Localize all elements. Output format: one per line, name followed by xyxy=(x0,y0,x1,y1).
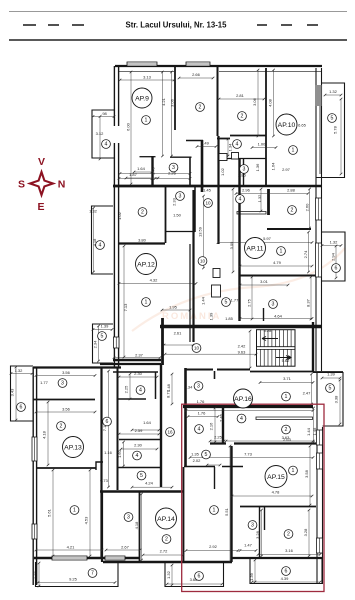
dimension line xyxy=(108,371,110,487)
dimension line xyxy=(186,410,313,412)
wall: AP11 right balcony xyxy=(322,232,345,281)
room number 1 xyxy=(277,247,286,256)
wall: AP14-AP15 divider xyxy=(230,446,232,562)
svg-text:3: 3 xyxy=(197,384,200,390)
window top-left xyxy=(127,62,157,66)
wall: wall right of stairs bottom xyxy=(313,371,343,373)
compass rose star xyxy=(30,172,53,195)
room number 1 xyxy=(289,466,298,475)
svg-text:2.81: 2.81 xyxy=(236,93,245,98)
title bar rule top xyxy=(9,11,347,13)
svg-text:4.21: 4.21 xyxy=(67,545,76,550)
svg-text:2.25: 2.25 xyxy=(124,385,129,394)
wall: AP13 interior wall 2 xyxy=(36,467,96,469)
bath fixture band b xyxy=(232,153,239,160)
wall: AP11 left wall xyxy=(238,158,240,321)
room number 2 xyxy=(282,425,291,434)
svg-text:1.36: 1.36 xyxy=(255,163,260,172)
dimension line xyxy=(186,550,238,552)
room number 3 xyxy=(248,521,257,530)
svg-text:2.63: 2.63 xyxy=(283,437,292,442)
dimension line xyxy=(260,189,262,211)
wall: AP13 interior wall 1 xyxy=(33,399,95,401)
svg-text:2.34: 2.34 xyxy=(185,385,194,390)
svg-text:2.25: 2.25 xyxy=(214,435,223,440)
dimension line xyxy=(179,77,213,79)
svg-text:2.47: 2.47 xyxy=(303,391,312,396)
svg-text:6: 6 xyxy=(285,569,288,575)
svg-text:0.73: 0.73 xyxy=(100,478,109,483)
window bottom a xyxy=(52,556,87,560)
wall: AP12 kitchen divider xyxy=(165,187,167,243)
svg-text:1.45: 1.45 xyxy=(203,188,212,193)
svg-text:3.06: 3.06 xyxy=(252,97,257,106)
svg-text:2: 2 xyxy=(60,424,63,430)
dimension line xyxy=(11,373,32,375)
svg-text:3.06: 3.06 xyxy=(170,98,175,107)
wall: AP9 balcony 4 outline xyxy=(92,110,114,158)
svg-text:6: 6 xyxy=(335,266,338,272)
svg-text:4.78: 4.78 xyxy=(272,490,281,495)
wall: AP12 small balcony xyxy=(93,324,114,363)
svg-text:4: 4 xyxy=(198,427,201,433)
svg-text:.98: .98 xyxy=(101,111,107,116)
svg-text:5.28: 5.28 xyxy=(264,328,273,333)
room number 16 xyxy=(166,428,175,437)
wall: AP15 bath wall h xyxy=(184,466,215,468)
watermark swoosh xyxy=(132,248,345,331)
svg-text:AP.9: AP.9 xyxy=(135,95,149,102)
window right AP15 c xyxy=(317,538,323,553)
svg-text:AP.16: AP.16 xyxy=(234,396,252,403)
svg-text:4: 4 xyxy=(136,453,139,459)
wall: AP15 left wall upper xyxy=(184,368,187,467)
dimension line xyxy=(335,246,337,278)
dimension line xyxy=(99,117,101,160)
room number 4 xyxy=(133,451,142,460)
wall: AP15 left wall lower xyxy=(183,467,185,562)
svg-text:2.67: 2.67 xyxy=(121,545,130,550)
svg-text:3.58: 3.58 xyxy=(304,469,309,478)
dimension line xyxy=(325,94,341,96)
wall: AP12 right wall line xyxy=(189,244,191,342)
room number 5 xyxy=(98,332,107,341)
dimension line xyxy=(240,550,256,552)
apartment label AP.9 xyxy=(132,88,152,108)
svg-text:2.72: 2.72 xyxy=(160,549,169,554)
room number 5 xyxy=(222,298,231,307)
dimension line xyxy=(197,146,216,148)
wall: AP15 top wall xyxy=(183,405,313,408)
room number 5 xyxy=(326,384,335,393)
svg-text:16: 16 xyxy=(167,430,173,435)
svg-text:3.16: 3.16 xyxy=(285,548,294,553)
dimension line xyxy=(203,196,205,268)
dimension line xyxy=(126,177,158,179)
svg-text:3.56: 3.56 xyxy=(62,370,71,375)
svg-text:7.13: 7.13 xyxy=(123,303,128,312)
dimension line xyxy=(167,583,222,585)
svg-text:N: N xyxy=(58,179,66,191)
wall: stairs bottom wall xyxy=(250,371,313,373)
room number 2 xyxy=(57,422,66,431)
dimension line xyxy=(15,367,17,420)
wall: AP12 left terrace xyxy=(92,206,114,274)
room number 4 xyxy=(236,195,245,204)
red highlight box around AP.15 xyxy=(182,404,324,591)
window right AP11 a xyxy=(316,198,322,220)
room number 4 xyxy=(195,425,204,434)
dimension line xyxy=(123,246,125,357)
wall: bottom wall right xyxy=(232,557,322,559)
svg-text:2.33: 2.33 xyxy=(172,197,177,206)
wall: bottom wall mid xyxy=(103,561,232,563)
svg-text:1.39: 1.39 xyxy=(101,324,110,329)
window AP12 left xyxy=(114,337,120,348)
room number 3 xyxy=(240,165,249,174)
svg-text:4.21: 4.21 xyxy=(161,97,166,106)
svg-text:5: 5 xyxy=(205,452,208,458)
dimension line xyxy=(188,416,218,418)
dimension line xyxy=(134,171,152,173)
dimension line xyxy=(164,344,193,346)
svg-text:2: 2 xyxy=(165,537,168,543)
svg-text:3.01: 3.01 xyxy=(260,279,269,284)
svg-text:1.77: 1.77 xyxy=(40,380,49,385)
svg-text:13.59: 13.59 xyxy=(198,226,203,237)
wall: AP9 bath wall vertical 2 xyxy=(189,157,191,186)
room number 1 xyxy=(282,392,291,401)
dimension line xyxy=(121,448,157,450)
wall: AP11 wc shelf xyxy=(237,212,266,215)
dimension line xyxy=(36,375,95,377)
svg-text:4: 4 xyxy=(240,416,243,422)
wall: AP15 interior wall h xyxy=(240,506,316,508)
wc fixture corridor b xyxy=(212,285,221,297)
svg-text:4.64: 4.64 xyxy=(274,314,283,319)
dimension line xyxy=(249,331,251,368)
dimension line xyxy=(251,277,253,319)
wall: AP15 right wall inner xyxy=(316,372,318,584)
dimension line xyxy=(120,79,174,81)
dimension line xyxy=(309,446,311,505)
dimension line xyxy=(123,442,125,466)
svg-text:1.39: 1.39 xyxy=(327,372,336,377)
dimension line xyxy=(129,374,131,399)
room number 3 xyxy=(169,163,178,172)
dimension line xyxy=(132,486,172,488)
svg-text:10: 10 xyxy=(200,259,206,264)
svg-text:1.32: 1.32 xyxy=(329,89,338,94)
svg-text:9.63: 9.63 xyxy=(238,350,247,355)
room number 6 xyxy=(282,567,291,576)
svg-text:1: 1 xyxy=(213,508,216,514)
svg-text:6: 6 xyxy=(198,574,201,580)
wall: AP14 balcony outline xyxy=(165,563,224,587)
wall: terrace 7 outline xyxy=(36,562,119,587)
svg-text:2.60: 2.60 xyxy=(305,203,310,212)
room number 10 xyxy=(204,199,213,208)
svg-text:5.78: 5.78 xyxy=(333,125,338,134)
svg-text:3.80: 3.80 xyxy=(138,238,147,243)
room number 5 xyxy=(202,450,211,459)
wall: wall y186 left section xyxy=(113,185,204,188)
wall: right exterior wall outer xyxy=(321,68,323,371)
masonry fill: masonry right top xyxy=(315,85,322,106)
wall: corridor left wall xyxy=(201,140,204,192)
room number 2 xyxy=(162,535,171,544)
apartment label AP.16 xyxy=(234,389,253,408)
window top-mid xyxy=(186,62,210,66)
dimension line xyxy=(93,329,112,331)
svg-text:10: 10 xyxy=(205,201,211,206)
svg-text:1.32: 1.32 xyxy=(166,570,171,579)
room number 4 xyxy=(136,386,145,395)
wall: AP10 interior wall xyxy=(265,68,267,187)
title bar rule bottom xyxy=(9,39,347,41)
dimension line xyxy=(308,232,310,272)
staircase outline xyxy=(257,330,296,367)
svg-text:2.16: 2.16 xyxy=(209,422,214,431)
svg-text:1.16: 1.16 xyxy=(104,450,113,455)
wall: AP16 room4 right wall xyxy=(155,372,157,399)
room number 1 xyxy=(142,116,151,125)
wall: AP10 band room3 left wall xyxy=(243,159,245,186)
svg-text:1.02: 1.02 xyxy=(117,211,122,220)
svg-text:2: 2 xyxy=(199,105,202,111)
dimension line xyxy=(190,457,313,459)
dimension line xyxy=(240,284,288,286)
dimension line xyxy=(38,582,115,584)
svg-text:2: 2 xyxy=(291,208,294,214)
svg-text:1.32: 1.32 xyxy=(89,209,98,214)
room number 4 xyxy=(233,140,242,149)
wall: AP15 interior wall v a xyxy=(259,506,261,558)
window right AP11 b xyxy=(316,243,322,277)
svg-text:AP.10: AP.10 xyxy=(278,122,296,129)
room number 2 xyxy=(284,530,293,539)
dimension line xyxy=(141,494,143,560)
room number 2 xyxy=(196,103,205,112)
wall: AP14 top wall xyxy=(100,490,183,493)
wall: AP15 balcony col xyxy=(313,373,343,427)
dimension line xyxy=(119,376,157,378)
wall: corridor right wall xyxy=(217,136,219,244)
dimension line xyxy=(171,565,173,585)
wall: AP16 room mid wall xyxy=(119,439,161,441)
dimension line xyxy=(311,374,313,404)
room number 4 xyxy=(102,140,111,149)
wall: AP10 balcony right xyxy=(316,83,345,178)
svg-text:1: 1 xyxy=(145,118,148,124)
svg-text:5.51: 5.51 xyxy=(224,507,229,516)
svg-text:3.09: 3.09 xyxy=(229,241,234,250)
svg-text:1.72: 1.72 xyxy=(33,570,38,579)
dimension line xyxy=(339,380,341,424)
dimension line xyxy=(207,464,220,466)
wall: AP9 bath wall vertical xyxy=(151,156,153,186)
svg-text:6: 6 xyxy=(20,405,23,411)
svg-text:3.43: 3.43 xyxy=(10,388,15,397)
svg-text:1.76: 1.76 xyxy=(198,411,207,416)
svg-text:2.66: 2.66 xyxy=(192,72,201,77)
wall: AP13 left wall inner xyxy=(36,367,38,585)
staircase arrow up xyxy=(262,337,278,341)
svg-text:4.18: 4.18 xyxy=(42,430,47,439)
wall: AP15 interior wall v b xyxy=(264,506,266,530)
svg-text:1: 1 xyxy=(145,300,148,306)
svg-text:5: 5 xyxy=(331,116,334,122)
dimension line xyxy=(254,560,256,582)
dimension line xyxy=(258,554,320,556)
room number 6 xyxy=(195,572,204,581)
dimension line xyxy=(273,70,275,136)
dimension line xyxy=(229,446,231,561)
svg-text:3.28: 3.28 xyxy=(255,530,260,539)
wall: AP12 bottom wall xyxy=(113,359,161,361)
room number 10 xyxy=(198,257,207,266)
dimension line xyxy=(93,116,114,118)
svg-text:7: 7 xyxy=(91,571,94,577)
svg-text:1: 1 xyxy=(73,508,76,514)
svg-text:1.48: 1.48 xyxy=(312,427,317,436)
wall: wall under AP9 divider xyxy=(186,140,203,142)
wall: AP13 wall notch xyxy=(96,462,103,470)
svg-text:1.32: 1.32 xyxy=(15,368,24,373)
svg-text:4.18: 4.18 xyxy=(134,521,139,530)
window right AP15 a xyxy=(317,430,323,445)
wall: AP14 interior vertical xyxy=(139,492,141,562)
svg-text:3: 3 xyxy=(251,523,254,529)
svg-text:Str. Lacul Ursului, Nr. 13-15: Str. Lacul Ursului, Nr. 13-15 xyxy=(126,21,228,30)
svg-text:2: 2 xyxy=(285,427,288,433)
dimension line xyxy=(93,208,95,272)
wc fixture corridor xyxy=(213,269,220,278)
wall: AP9 room divider xyxy=(174,66,176,130)
wall: AP16 small wall xyxy=(117,467,160,469)
svg-text:2.88: 2.88 xyxy=(287,188,296,193)
room number 3 xyxy=(176,192,185,201)
svg-text:1.76: 1.76 xyxy=(197,399,206,404)
dimension line xyxy=(171,374,173,404)
svg-text:1.87: 1.87 xyxy=(129,172,138,177)
svg-text:2: 2 xyxy=(141,210,144,216)
svg-text:AP.12: AP.12 xyxy=(137,261,155,268)
wall: AP13 top wall xyxy=(33,366,121,368)
svg-text:4: 4 xyxy=(105,142,108,148)
svg-text:1.50: 1.50 xyxy=(173,213,182,218)
wall: AP15 balcony outline xyxy=(250,558,322,584)
svg-text:E: E xyxy=(37,201,44,213)
svg-text:5.62: 5.62 xyxy=(282,358,291,363)
staircase arrow down xyxy=(276,356,290,360)
dimension line xyxy=(119,433,159,435)
svg-text:8.77: 8.77 xyxy=(166,389,171,398)
wall: AP9 left wall lower inner xyxy=(118,143,120,187)
svg-text:5: 5 xyxy=(225,300,228,306)
room number 6 xyxy=(103,417,112,426)
wall: bottom wall left xyxy=(34,557,140,560)
svg-text:5.97: 5.97 xyxy=(263,236,272,241)
svg-text:9.25: 9.25 xyxy=(69,577,78,582)
apartment label AP.10 xyxy=(276,114,297,135)
wall: AP15 right wall outer xyxy=(322,427,324,584)
svg-text:3: 3 xyxy=(127,515,130,521)
wall: stairs right shaft wall xyxy=(312,322,314,372)
dimension line xyxy=(89,470,91,556)
dimension line xyxy=(322,377,340,379)
dimension line xyxy=(119,178,152,180)
svg-text:4: 4 xyxy=(236,142,239,148)
apartment label AP.13 xyxy=(63,437,84,458)
svg-text:3: 3 xyxy=(179,194,182,200)
svg-text:1: 1 xyxy=(292,148,295,154)
wall: AP13 right wall xyxy=(100,368,102,557)
svg-text:1.95: 1.95 xyxy=(169,305,178,310)
staircase mid landing lines xyxy=(257,346,296,348)
svg-text:3: 3 xyxy=(272,302,275,308)
wall: AP9 bottom band stub a xyxy=(140,156,156,158)
dimension line xyxy=(47,402,49,465)
room number 3 xyxy=(194,382,203,391)
dimension line xyxy=(257,70,259,136)
svg-text:2.46: 2.46 xyxy=(219,413,224,422)
svg-text:1.64: 1.64 xyxy=(271,162,276,171)
wall: AP13 left balcony xyxy=(11,366,34,421)
svg-text:1.32: 1.32 xyxy=(330,240,339,245)
svg-text:6: 6 xyxy=(106,419,109,425)
svg-text:2.92: 2.92 xyxy=(209,544,218,549)
window AP13 left b xyxy=(32,524,37,539)
wall: AP11 mid wall xyxy=(240,275,316,277)
svg-text:2.34: 2.34 xyxy=(93,340,98,349)
svg-text:6.65: 6.65 xyxy=(298,123,307,128)
room number 5 xyxy=(137,471,146,480)
dimension line xyxy=(232,495,312,497)
wall: hall door jamb xyxy=(214,371,216,379)
svg-text:2: 2 xyxy=(287,532,290,538)
svg-text:AP.15: AP.15 xyxy=(267,474,285,481)
dimension line xyxy=(162,309,190,311)
svg-text:2.42: 2.42 xyxy=(238,344,247,349)
wall: AP9 bottom band stub b xyxy=(170,156,192,158)
svg-text:4.79: 4.79 xyxy=(273,260,282,265)
svg-text:1.60: 1.60 xyxy=(117,449,122,458)
wall: AP10 band wall xyxy=(220,158,266,160)
dimension line xyxy=(240,318,312,320)
apartment label AP.14 xyxy=(156,508,177,529)
dimension line xyxy=(171,72,173,156)
room number 1 xyxy=(70,506,79,515)
wall: AP11 room2 bottom wall xyxy=(267,228,311,230)
dimension line xyxy=(240,265,312,267)
svg-text:1.44: 1.44 xyxy=(306,427,311,436)
wall: AP15 hall divider xyxy=(222,408,224,443)
room number 6 xyxy=(17,403,26,412)
svg-text:AP.14: AP.14 xyxy=(157,516,175,523)
window AP13 left a xyxy=(32,437,37,461)
wall: AP12 bath wall xyxy=(194,187,196,232)
svg-text:2.96: 2.96 xyxy=(242,188,251,193)
room number 4 xyxy=(96,241,105,250)
dimension line xyxy=(130,72,132,184)
svg-text:1.49: 1.49 xyxy=(201,141,210,146)
svg-text:3: 3 xyxy=(243,167,246,173)
dimension line xyxy=(214,408,216,442)
svg-text:5: 5 xyxy=(140,473,143,479)
svg-text:2.61: 2.61 xyxy=(174,331,183,336)
room number 3 xyxy=(124,513,133,522)
